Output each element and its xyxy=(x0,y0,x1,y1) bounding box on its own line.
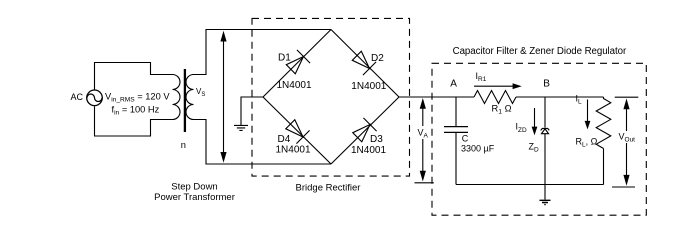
label VA xyxy=(417,126,432,140)
wire secondary bottom to bridge xyxy=(194,120,332,165)
svg-text:1N4001: 1N4001 xyxy=(351,81,386,92)
caption Step Down Power Transformer xyxy=(154,182,235,203)
resistor RL xyxy=(596,97,611,149)
svg-text:IZD: IZD xyxy=(516,122,527,134)
svg-text:Capacitor Filter & Zener Diode: Capacitor Filter & Zener Diode Regulator xyxy=(453,46,627,57)
svg-text:3300 µF: 3300 µF xyxy=(461,143,495,153)
svg-text:C: C xyxy=(462,133,469,143)
current arrow IR1 xyxy=(474,83,522,89)
wire bridge output to node A and R1 xyxy=(399,96,474,98)
diode D4 xyxy=(286,120,310,144)
svg-text:IR1: IR1 xyxy=(476,71,487,83)
transformer T1 core xyxy=(184,69,186,132)
svg-text:1N4001: 1N4001 xyxy=(351,145,386,156)
diode D1 xyxy=(286,50,310,74)
svg-text:fin = 100 Hz: fin = 100 Hz xyxy=(112,105,160,117)
wire primary loop xyxy=(94,63,173,137)
wire bridge edge bottom-left xyxy=(263,97,331,164)
wire bridge edge top-right xyxy=(331,30,399,98)
ground (zener) xyxy=(540,200,551,204)
svg-text:B: B xyxy=(543,78,550,89)
transformer T1 secondary winding xyxy=(186,75,193,120)
ground (bridge input side) xyxy=(234,125,248,130)
diode D2 xyxy=(352,51,376,75)
svg-text:1N4001: 1N4001 xyxy=(277,80,312,91)
svg-text:Vin_RMS = 120 V: Vin_RMS = 120 V xyxy=(105,92,170,104)
bridge rectifier dashed box xyxy=(252,18,410,176)
measurement arrow VOut xyxy=(612,97,638,187)
wire node B to RL branch xyxy=(516,96,604,98)
wire secondary top to bridge xyxy=(194,30,332,75)
wire bridge edge top-left xyxy=(263,30,331,98)
svg-text:R1 Ω: R1 Ω xyxy=(492,104,512,116)
svg-text:D3: D3 xyxy=(370,134,383,145)
svg-text:n: n xyxy=(181,140,186,150)
svg-text:RL, Ω: RL, Ω xyxy=(576,137,598,149)
measurement arrow VS xyxy=(220,31,226,163)
svg-text:IL: IL xyxy=(576,94,583,106)
svg-text:Power Transformer: Power Transformer xyxy=(154,192,235,203)
svg-text:D2: D2 xyxy=(371,53,384,64)
wire zener to ground xyxy=(544,134,546,200)
svg-text:VS: VS xyxy=(196,87,205,98)
svg-text:D1: D1 xyxy=(278,52,291,63)
svg-text:A: A xyxy=(450,78,457,89)
wire bridge edge bottom-right xyxy=(331,97,399,164)
AC source V_in xyxy=(87,90,103,106)
svg-text:1N4001: 1N4001 xyxy=(276,145,311,156)
wire capacitor to bottom rail xyxy=(455,133,457,185)
wire bottom rail xyxy=(456,184,604,186)
transformer T1 primary winding xyxy=(173,75,181,120)
label VOut xyxy=(618,131,635,144)
capacitor filter dashed box xyxy=(432,63,646,215)
resistor R1 xyxy=(474,91,516,104)
wire node A down to capacitor xyxy=(455,97,457,126)
wire RL to bottom rail xyxy=(603,149,605,185)
current arrow IZD xyxy=(532,108,538,135)
svg-text:ZD: ZD xyxy=(529,141,540,153)
svg-text:D4: D4 xyxy=(278,134,291,145)
diode D3 xyxy=(353,118,377,142)
capacitor C xyxy=(444,127,468,133)
svg-text:Bridge Rectifier: Bridge Rectifier xyxy=(296,182,361,193)
measurement arrow VA xyxy=(415,98,434,183)
wire bridge left vertex to ground xyxy=(241,97,263,125)
svg-text:AC: AC xyxy=(71,92,84,102)
current arrow IL xyxy=(585,100,591,130)
wire node B down to zener xyxy=(544,97,546,128)
zener diode ZD xyxy=(541,128,550,133)
